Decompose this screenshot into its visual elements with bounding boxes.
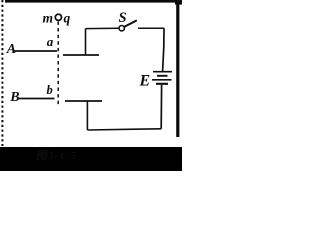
- page top border line: [5, 0, 182, 3]
- plate A left segment: [14, 50, 58, 52]
- bottom wire: [87, 129, 161, 130]
- svg-text:图3-1-5: 图3-1-5: [36, 150, 77, 162]
- switch contact circle: [119, 26, 124, 31]
- svg-text:b: b: [47, 83, 53, 97]
- plate B left segment: [17, 98, 55, 100]
- svg-text:B: B: [9, 90, 19, 105]
- switch blade: [125, 20, 137, 26]
- plate B right segment: [65, 100, 102, 102]
- page right border line: [176, 0, 179, 137]
- page left dotted border: [1, 0, 3, 146]
- dashed trajectory line: [57, 22, 59, 106]
- svg-text:A: A: [6, 42, 16, 57]
- page border corner block: [175, 0, 182, 5]
- battery plate long top: [153, 71, 172, 73]
- right wire battery down to corner: [160, 85, 162, 129]
- wire from plate A up: [85, 29, 87, 55]
- charged ball: [55, 14, 61, 20]
- wire switch to top-right corner: [138, 27, 164, 29]
- battery plate long: [152, 79, 172, 81]
- bottom black caption bar: [0, 147, 182, 171]
- svg-text:a: a: [47, 34, 54, 49]
- svg-text:q: q: [64, 11, 71, 26]
- plate A right segment: [63, 54, 99, 56]
- wire to switch: [86, 27, 119, 29]
- wire up to plate B: [86, 101, 88, 130]
- svg-text:E: E: [139, 73, 151, 90]
- battery plate short: [157, 75, 168, 77]
- svg-text:S: S: [119, 10, 127, 26]
- svg-text:m: m: [43, 11, 54, 26]
- right wire down to battery: [163, 28, 164, 71]
- battery plate short bottom: [156, 83, 168, 85]
